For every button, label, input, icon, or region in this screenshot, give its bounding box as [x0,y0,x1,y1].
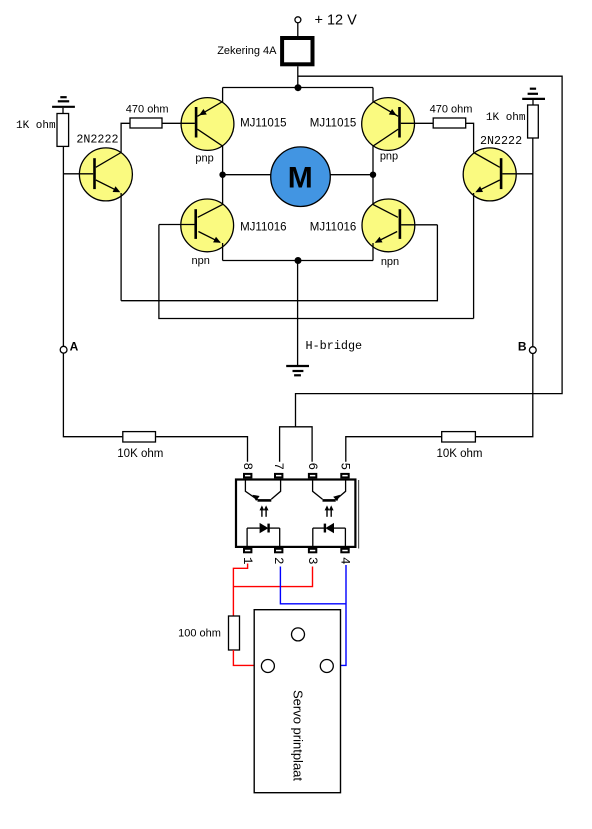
node B [518,340,536,354]
wire top bar of H-bridge [223,87,373,89]
servo printplaat board [254,610,340,793]
fuse F1 Zekering 4A [217,38,312,64]
node +12V terminal [295,13,357,29]
wire red pin 1 to junction [233,564,247,617]
svg-text:MJ11016: MJ11016 [310,221,356,233]
svg-text:3: 3 [305,557,319,565]
wire R1 left end to Q5 collector [121,123,130,152]
pin 1 [240,549,254,565]
svg-text:470 ohm: 470 ohm [430,104,473,116]
transistor Q2 MJ11015 (pnp, top-right) [362,88,434,175]
transistor Q5 2N2222 (npn, left) [63,148,132,301]
svg-text:1K ohm: 1K ohm [16,120,56,132]
svg-text:B: B [518,340,527,354]
svg-text:pnp: pnp [195,152,213,164]
pad left [261,660,274,673]
svg-text:+ 12 V: + 12 V [315,13,358,29]
svg-text:470 ohm: 470 ohm [126,104,169,116]
svg-text:7: 7 [271,463,285,471]
wire Q5 emitter to Q4 base [121,225,437,301]
svg-text:10K ohm: 10K ohm [117,448,163,460]
wire terminal to fuse [297,23,299,36]
transistor U1 phototransistor (left channel) [245,478,280,501]
wire motor left [223,174,271,176]
node junction dot bottom bar [295,257,302,264]
transistor Q3 MJ11016 (npn, bottom-left) [159,175,234,261]
svg-text:npn: npn [192,255,210,267]
transistor Q1 MJ11015 (pnp, top-left) [162,88,234,175]
wire blue pin 2 to pin 4 [280,567,346,604]
svg-text:4: 4 [338,557,352,565]
pin 2 [271,549,285,565]
pin 6 [305,463,319,478]
pin 8 [240,463,254,478]
diode D1 LED (left channel) [247,523,280,548]
pin 3 [305,549,319,565]
transistor Q4 MJ11016 (npn, bottom-right) [362,175,437,261]
transistor Q6 2N2222 (npn, right) [463,148,533,319]
pad right [320,660,333,673]
node junction dot below fuse [295,84,302,91]
ground left (above R3) [52,97,75,113]
light arrows (left channel) [260,505,269,516]
wire Q6 emitter to Q3 base [159,225,474,319]
svg-text:MJ11015: MJ11015 [240,118,286,130]
svg-text:MJ11015: MJ11015 [310,118,356,130]
node dot motor left [219,172,225,178]
wire R3 down to node A [62,146,64,346]
svg-text:Zekering 4A: Zekering 4A [217,45,277,57]
node A [60,339,78,353]
wire fuse to top junction [297,66,299,87]
svg-text:Servo printplaat: Servo printplaat [290,690,305,781]
wire node B down to R6 [475,354,532,437]
resistor R6 10K ohm (right) [436,432,482,461]
diode D2 LED (right channel) [313,523,346,548]
svg-text:1K ohm: 1K ohm [486,112,526,124]
svg-text:pnp: pnp [380,150,398,162]
svg-text:1: 1 [240,557,254,565]
svg-text:A: A [70,339,79,353]
svg-text:8: 8 [240,463,254,471]
wire red R7 to servo pad left [233,650,261,665]
resistor R4 1K ohm (right) [486,105,538,138]
svg-text:2N2222: 2N2222 [480,134,522,148]
resistor R1 470 ohm (left) [126,104,169,128]
pad top [292,628,305,641]
resistor R3 1K ohm (left) [16,114,69,147]
motor M [271,147,331,207]
wire node A down to R5 [63,353,122,437]
svg-text:10K ohm: 10K ohm [436,448,482,460]
svg-text:5: 5 [338,463,352,471]
svg-text:100 ohm: 100 ohm [178,628,221,640]
svg-text:H-bridge: H-bridge [306,339,363,353]
svg-text:2: 2 [271,557,285,565]
wire R2 right end to Q6 collector [466,123,474,152]
wire bottom junction to ground [297,261,299,366]
wire blue pin 4 to servo pad right [334,565,346,665]
wire red pin 3 to junction [233,567,312,587]
wire R6 to pin 5 [346,437,442,462]
pin 7 [271,463,285,478]
resistor R7 100 ohm [178,616,239,650]
wire motor right [330,174,373,176]
wire rail to pins 7 and 6 [280,427,313,462]
svg-text:npn: npn [381,256,399,268]
pin 5 [338,463,352,478]
wire R4 down to node B [532,138,534,347]
ground center (H-bridge) [286,366,309,375]
transistor U1 phototransistor (right channel) [313,478,346,501]
svg-text:MJ11016: MJ11016 [240,221,286,233]
svg-text:2N2222: 2N2222 [76,133,118,147]
node dot motor right [370,172,376,178]
svg-text:6: 6 [305,463,319,471]
wire bottom bar of H-bridge [223,260,373,262]
pin 4 [338,549,352,565]
op-amp U1 optocoupler body [236,480,359,549]
ground right (above R4) [522,89,545,105]
svg-text:M: M [288,162,313,195]
wire R5 to pin 8 [156,437,247,462]
wire +12V rail to optocoupler pins 7-6 [296,76,563,427]
resistor R2 470 ohm (right) [430,104,473,128]
resistor R5 10K ohm (left) [117,432,163,461]
light arrows (right channel) [325,505,334,516]
